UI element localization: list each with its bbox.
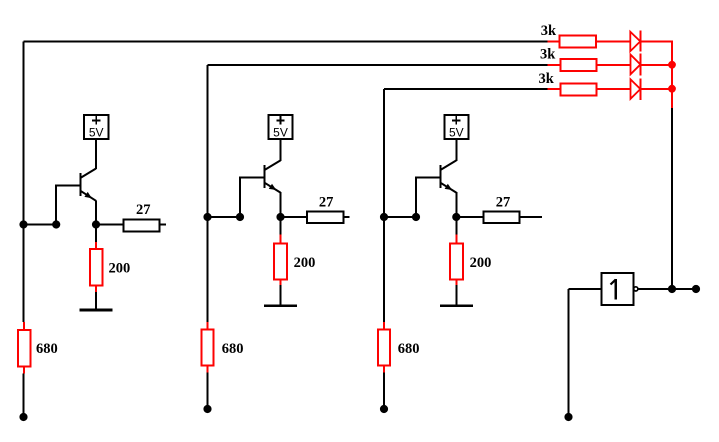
junction bus/row3 (red)	[668, 85, 676, 93]
node gate input terminal	[564, 413, 572, 421]
wire stage1 R680 bottom terminal (red)	[23, 367, 25, 374]
diode D1 triangle	[630, 32, 640, 51]
resistor 27 stage3	[484, 212, 520, 224]
svg-text:3k: 3k	[539, 71, 555, 87]
svg-text:27: 27	[496, 195, 511, 211]
transistor Q1 base bar	[79, 173, 81, 196]
svg-text:680: 680	[222, 341, 244, 357]
wire row2 into R3k (red)	[547, 64, 560, 66]
wire stage3 R680 bottom terminal (red)	[383, 366, 385, 373]
wire gate output to bus	[638, 288, 672, 290]
wire row2 diode to bus (red)	[640, 64, 673, 66]
junction stage3 main/node	[380, 213, 388, 221]
wire bus vertical lower (black)	[671, 108, 673, 289]
resistor 200 stage3	[450, 243, 463, 279]
resistor 27 stage2	[307, 212, 344, 224]
wire stage2 R200 top terminal (red)	[280, 235, 282, 244]
wire gate input horizontal	[569, 288, 602, 290]
svg-text:5V: 5V	[273, 126, 288, 140]
transistor Q2 emitter vertical	[280, 192, 282, 217]
wire stage2 R680 bottom terminal (red)	[207, 366, 209, 373]
wire stage3 main vertical lower	[383, 373, 385, 410]
transistor Q1 collector vertical	[95, 138, 97, 169]
wire stage2 R200 to ground (black)	[280, 285, 282, 306]
svg-text:200: 200	[294, 255, 316, 271]
wire row3 horizontal from stage3 (black)	[384, 88, 547, 90]
wire stage2 base vertical	[239, 177, 241, 217]
wire stage1 R200 top terminal (red)	[95, 242, 97, 249]
wire stage3 base vertical	[415, 177, 417, 217]
node stage1 bottom terminal	[19, 413, 27, 421]
node stage2 bottom terminal	[203, 405, 211, 413]
ground stage3	[440, 304, 473, 307]
wire gate input vertical	[568, 289, 570, 417]
transistor Q2 collector diagonal	[265, 160, 281, 170]
junction stage2 emitter node	[276, 213, 284, 221]
transistor Q3 emitter vertical	[455, 192, 457, 217]
wire stage1 node to R200 (black)	[95, 225, 97, 243]
diode D1 cathode bar	[639, 31, 641, 52]
wire row2 R3k to diode (red)	[596, 64, 630, 66]
resistor 200 stage1	[90, 249, 102, 286]
diode D3 cathode bar	[639, 78, 641, 100]
ground stage2	[264, 304, 297, 307]
diode D3 triangle	[631, 79, 641, 99]
resistor 27 stage1	[124, 220, 160, 232]
junction bus/row2 (red)	[668, 61, 676, 69]
wire stage1 R200 to ground (black)	[95, 292, 97, 310]
junction stage1 base corner	[52, 220, 60, 228]
transistor Q2 base bar	[264, 165, 266, 188]
resistor 3k row1	[559, 35, 596, 47]
resistor 680 stage1	[18, 330, 30, 367]
wire row3 into R3k (red)	[547, 88, 560, 90]
svg-text:5V: 5V	[89, 126, 104, 140]
plus sign stage1	[92, 116, 100, 125]
resistor 3k row3	[560, 83, 596, 95]
svg-text:3k: 3k	[541, 23, 557, 39]
voltage source +5V box stage2	[269, 115, 293, 139]
wire row1 horizontal from stage1 (black)	[24, 41, 548, 43]
wire stage3 R200 top terminal (red)	[455, 235, 457, 244]
wire row2 horizontal from stage2 (black)	[208, 64, 548, 66]
resistor 200 stage2	[274, 243, 287, 279]
wire stage3 emitter node to R27	[456, 216, 483, 218]
wire stage1 R200 bottom terminal (red)	[95, 286, 97, 293]
wire row3 R3k to diode (red)	[596, 88, 630, 90]
wire stage2 R680 top terminal (red)	[207, 322, 209, 329]
wire stage2 emitter node to R27	[281, 216, 308, 218]
transistor Q1 emitter arrowhead	[84, 192, 92, 198]
svg-text:3k: 3k	[540, 47, 556, 63]
wire stage3 base horizontal	[415, 176, 439, 178]
wire stage3 R200 bottom terminal (red)	[455, 279, 457, 285]
wire stage1 R680 top terminal (red)	[23, 322, 25, 330]
wire stage3 node horizontal	[384, 216, 416, 218]
wire stage2 node horizontal	[208, 216, 241, 218]
wire stage2 node to R200 (black)	[280, 217, 282, 235]
wire stage3 node to R200 (black)	[455, 217, 457, 235]
transistor Q3 emitter arrowhead	[445, 184, 453, 190]
wire stage3 main vertical upper (input bus x=384.0)	[383, 89, 385, 322]
wire stage2 R27 output stub	[344, 216, 350, 218]
junction stage1 main/node	[19, 220, 27, 228]
wire stage1 emitter node to R27	[96, 224, 124, 226]
junction stage3 emitter node	[452, 213, 460, 221]
node stage3 bottom terminal	[380, 405, 388, 413]
junction stage3 base corner	[412, 213, 420, 221]
junction gate output / bus	[668, 285, 676, 293]
wire stage2 main vertical upper (input bus x=207.5)	[207, 65, 209, 322]
wire row1 into R3k (red)	[547, 41, 559, 43]
wire stage1 node horizontal	[24, 224, 57, 226]
gate U1 box (buffer '1')	[601, 273, 633, 305]
diode D2 triangle	[631, 55, 641, 75]
resistor 680 stage3	[378, 329, 390, 365]
wire stage1 base vertical	[55, 185, 57, 224]
plus sign stage3	[452, 116, 460, 125]
node output terminal	[692, 285, 700, 293]
wire stage1 main vertical upper (input bus x=23.5)	[23, 42, 25, 322]
wire stage2 base horizontal	[239, 176, 264, 178]
resistor 3k row2	[560, 59, 596, 71]
wire stage3 R200 to ground (black)	[455, 285, 457, 306]
diode D2 cathode bar	[639, 54, 641, 76]
transistor Q3 collector vertical	[455, 138, 457, 161]
wire stage3 R27 output stub	[520, 216, 543, 218]
gate U1 label 1	[611, 279, 616, 299]
transistor Q1 collector diagonal	[80, 169, 96, 179]
plus sign stage2	[276, 116, 284, 125]
svg-text:200: 200	[470, 255, 492, 271]
wire row3 diode to bus (red)	[640, 88, 673, 90]
gate U1 inversion bubble	[634, 287, 638, 291]
svg-text:680: 680	[398, 341, 420, 357]
svg-text:27: 27	[136, 202, 151, 218]
wire stage1 R27 output stub	[160, 224, 167, 226]
junction stage2 main/node	[203, 213, 211, 221]
wire stage2 R200 bottom terminal (red)	[280, 279, 282, 285]
voltage source +5V box stage1	[84, 115, 108, 139]
svg-text:5V: 5V	[449, 126, 464, 140]
wire bus vertical upper (red)	[671, 41, 673, 108]
junction stage2 base corner	[236, 213, 244, 221]
wire stage1 main vertical lower	[23, 374, 25, 418]
transistor Q2 emitter arrowhead	[269, 184, 277, 190]
junction stage1 emitter node	[92, 220, 100, 228]
wire stage1 base horizontal	[55, 184, 79, 186]
svg-text:680: 680	[36, 341, 58, 357]
wire stage2 main vertical lower	[207, 373, 209, 410]
transistor Q2 emitter diagonal	[265, 183, 281, 193]
transistor Q3 collector diagonal	[440, 160, 456, 170]
wire bus to output terminal	[672, 288, 696, 290]
wire row1 diode to bus (red)	[640, 41, 673, 43]
ground stage1	[80, 309, 113, 312]
wire row1 R3k to diode (red)	[596, 41, 630, 43]
svg-text:200: 200	[109, 261, 131, 277]
transistor Q1 emitter diagonal	[80, 191, 96, 201]
svg-text:27: 27	[319, 195, 334, 211]
transistor Q1 emitter vertical	[95, 200, 97, 224]
transistor Q3 emitter diagonal	[440, 183, 456, 193]
resistor 680 stage2	[202, 329, 214, 365]
wire stage3 R680 top terminal (red)	[383, 322, 385, 329]
transistor Q3 base bar	[439, 165, 441, 188]
transistor Q2 collector vertical	[280, 138, 282, 161]
voltage source +5V box stage3	[444, 115, 468, 139]
